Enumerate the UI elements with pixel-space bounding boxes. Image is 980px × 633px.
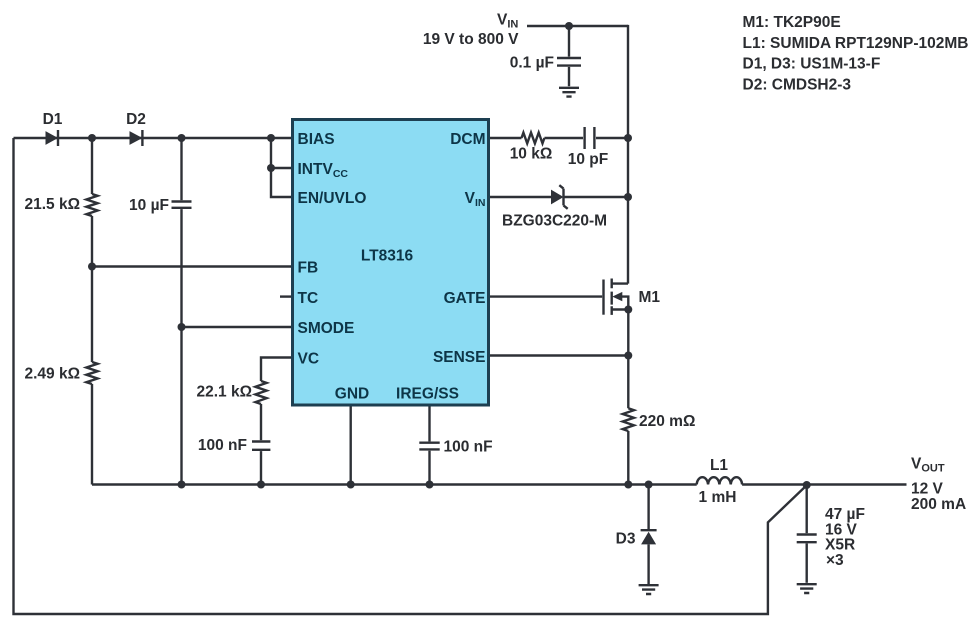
svg-text:M1: M1	[639, 289, 661, 306]
svg-text:10 µF: 10 µF	[129, 197, 169, 214]
ground (47uF)	[797, 584, 817, 593]
node: D2/C junction	[178, 134, 186, 142]
capacitor 100nF (VC)	[252, 442, 270, 450]
wire: GND pin	[350, 406, 352, 485]
diode BZG03C220-M (zener)	[551, 190, 564, 205]
op-amp U1: LT8316 IC block	[293, 120, 489, 406]
resistor 10 kOhm	[522, 133, 545, 144]
diode D1	[46, 131, 59, 145]
svg-text:10 kΩ: 10 kΩ	[510, 145, 553, 162]
resistor 22.1 kOhm	[255, 381, 266, 404]
svg-text:200 mA: 200 mA	[911, 496, 966, 513]
svg-text:0.1 µF: 0.1 µF	[510, 55, 554, 72]
wire: BIAS/INTVCC/EN vertical	[271, 138, 291, 197]
capacitor 47uF output	[806, 485, 808, 533]
wire: BIAS rail	[14, 137, 292, 139]
svg-text:×3: ×3	[826, 552, 844, 569]
svg-text:TC: TC	[298, 290, 319, 307]
diode D2	[130, 131, 143, 145]
svg-text:GND: GND	[335, 386, 369, 403]
svg-text:IREG/SS: IREG/SS	[396, 386, 459, 403]
node: SMODE junction	[178, 323, 186, 331]
node: VIN/0.1uF junction	[565, 22, 573, 30]
svg-text:VOUT: VOUT	[911, 456, 945, 475]
svg-text:EN/UVLO: EN/UVLO	[298, 190, 367, 207]
svg-text:SMODE: SMODE	[298, 320, 355, 337]
svg-text:12 V: 12 V	[911, 480, 944, 497]
transistor M1 (NMOS)	[602, 280, 604, 315]
svg-text:L1: SUMIDA RPT129NP-102MB: L1: SUMIDA RPT129NP-102MB	[743, 35, 969, 52]
svg-text:DCM: DCM	[450, 131, 485, 148]
wire: VC line	[261, 358, 291, 382]
svg-text:47 µF: 47 µF	[825, 506, 865, 523]
resistor 220 mOhm	[623, 408, 634, 431]
svg-text:100 nF: 100 nF	[444, 439, 493, 456]
wire: TC stub	[280, 295, 291, 297]
svg-text:FB: FB	[298, 259, 319, 276]
capacitor 10uF	[180, 138, 182, 200]
wire: FB line	[92, 265, 291, 267]
diode D3	[647, 485, 649, 531]
node: rail/220m junction	[624, 481, 632, 489]
svg-text:D2: D2	[126, 111, 146, 128]
wire: right vertical bus (VIN to M1 drain)	[627, 25, 629, 284]
svg-text:21.5 kΩ: 21.5 kΩ	[24, 196, 80, 213]
wire: INTVCC stub	[271, 167, 291, 169]
svg-text:10 pF: 10 pF	[568, 151, 608, 168]
node: rail junctions	[178, 481, 186, 489]
capacitor 100nF (IREG/SS)	[428, 406, 430, 441]
svg-text:LT8316: LT8316	[361, 248, 414, 265]
wire: VIN top rail	[527, 25, 628, 27]
node: FB divider tap	[88, 263, 96, 271]
svg-text:SENSE: SENSE	[433, 349, 486, 366]
ground (D3)	[639, 585, 659, 594]
resistor 21.5 kOhm	[91, 138, 93, 194]
svg-text:L1: L1	[710, 457, 728, 474]
node: D3 junction	[645, 481, 653, 489]
wire: SENSE line	[490, 354, 628, 356]
svg-text:2.49 kΩ: 2.49 kΩ	[24, 366, 80, 383]
svg-text:D2: CMDSH2-3: D2: CMDSH2-3	[743, 76, 852, 93]
wire: VIN pin to bus	[490, 196, 628, 198]
resistor 2.49 kOhm	[86, 362, 97, 384]
wire: source to sense	[627, 310, 629, 409]
svg-text:1 mH: 1 mH	[699, 489, 737, 506]
svg-text:VC: VC	[298, 350, 320, 367]
svg-text:BIAS: BIAS	[298, 131, 335, 148]
node: D1/R junction	[88, 134, 96, 142]
svg-text:D1, D3: US1M-13-F: D1, D3: US1M-13-F	[743, 56, 881, 73]
ground (0.1uF)	[559, 88, 579, 97]
capacitor 10 pF	[585, 127, 595, 149]
node: VOUT junction	[803, 481, 811, 489]
svg-text:220 mΩ: 220 mΩ	[639, 413, 695, 430]
svg-text:22.1 kΩ: 22.1 kΩ	[196, 384, 252, 401]
wire: switch-node rail / VOUT line	[92, 483, 907, 485]
inductor L1	[697, 477, 742, 484]
wire: GATE line	[490, 295, 602, 297]
node: BIAS junction	[267, 134, 275, 142]
svg-text:100 nF: 100 nF	[198, 437, 247, 454]
node: zener/bus junction	[624, 193, 632, 201]
svg-text:X5R: X5R	[825, 537, 855, 554]
wire: feedback return loop	[14, 138, 807, 614]
svg-text:BZG03C220-M: BZG03C220-M	[502, 213, 607, 230]
svg-text:M1: TK2P90E: M1: TK2P90E	[743, 14, 841, 31]
svg-text:19 V to 800 V: 19 V to 800 V	[423, 31, 519, 48]
wire: DCM to RC	[490, 137, 628, 139]
capacitor 0.1uF input bypass	[568, 26, 570, 57]
node: DCM net on right bus	[624, 134, 632, 142]
svg-text:VIN: VIN	[497, 12, 518, 31]
node: INTVCC junction	[267, 164, 275, 172]
svg-text:D3: D3	[616, 531, 636, 548]
svg-text:GATE: GATE	[444, 290, 486, 307]
wire: SMODE line	[182, 326, 292, 328]
svg-text:D1: D1	[43, 111, 63, 128]
